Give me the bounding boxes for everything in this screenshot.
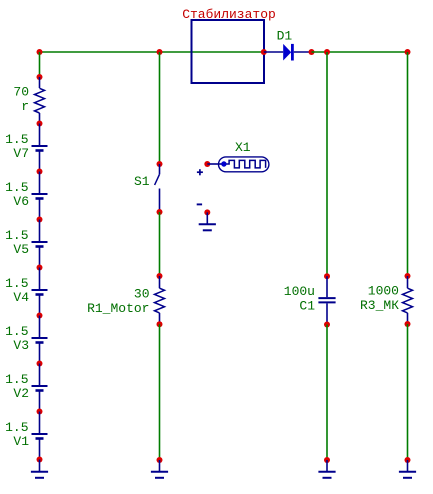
svg-text:V2: V2 bbox=[13, 386, 29, 401]
switch S1 bbox=[155, 164, 160, 212]
node junction R3_MK top bbox=[405, 273, 411, 279]
node junction below V1 bbox=[37, 457, 43, 463]
wire battery V2 top lead bbox=[39, 364, 41, 386]
ground X1 minus bbox=[199, 212, 216, 230]
connector X1 minus sign bbox=[197, 203, 202, 205]
node junction R3_MK ground bbox=[405, 457, 411, 463]
resistor R3_MK value label bbox=[368, 284, 399, 299]
battery V7 value label bbox=[5, 132, 28, 147]
wire battery V5 top lead bbox=[39, 220, 41, 242]
node junction R1_Motor top bbox=[157, 273, 163, 279]
node junction below V5 bbox=[37, 265, 43, 271]
battery V1 value label bbox=[5, 420, 28, 435]
wire R3_MK bottom lead bbox=[407, 313, 409, 324]
svg-text:V6: V6 bbox=[13, 194, 29, 209]
node junction S1 branch on top rail bbox=[157, 49, 163, 55]
node junction below V7 bbox=[37, 169, 43, 175]
node junction resistor r / V7 bbox=[37, 121, 43, 127]
wire R3_MK top lead bbox=[407, 276, 409, 288]
svg-text:1.5: 1.5 bbox=[5, 276, 28, 291]
wire C1 top lead bbox=[326, 276, 328, 297]
connector X1 label bbox=[235, 140, 251, 155]
stabilizer box U1 bbox=[192, 20, 265, 83]
battery V4 bbox=[32, 290, 48, 295]
battery V1 name label bbox=[13, 434, 29, 449]
wire battery V5 bottom lead bbox=[39, 247, 41, 268]
node junction below V3 bbox=[37, 361, 43, 367]
svg-text:1.5: 1.5 bbox=[5, 132, 28, 147]
node junction after D1 bbox=[309, 49, 315, 55]
svg-text:V5: V5 bbox=[13, 242, 29, 257]
svg-text:C1: C1 bbox=[299, 299, 315, 314]
node junction R1_Motor ground bbox=[157, 457, 163, 463]
node junction below V6 bbox=[37, 217, 43, 223]
wire battery V1 bottom lead bbox=[39, 439, 41, 460]
svg-text:V3: V3 bbox=[13, 338, 29, 353]
wire battery V3 top lead bbox=[39, 316, 41, 338]
wire C1 to ground bbox=[326, 325, 328, 461]
wire battery V1 top lead bbox=[39, 412, 41, 434]
battery V2 value label bbox=[5, 372, 28, 387]
wire R1_Motor to ground bbox=[159, 324, 161, 460]
battery V4 value label bbox=[5, 276, 28, 291]
wire top rail right bbox=[312, 51, 408, 53]
battery V7 name label bbox=[13, 146, 29, 161]
diode D1 bbox=[283, 44, 294, 61]
node junction below V4 bbox=[37, 313, 43, 319]
svg-text:1.5: 1.5 bbox=[5, 324, 28, 339]
svg-text:1.5: 1.5 bbox=[5, 420, 28, 435]
node junction C1 ground bbox=[324, 457, 330, 463]
node junction above resistor r bbox=[37, 74, 43, 80]
battery V6 bbox=[32, 194, 48, 199]
capacitor C1 name label bbox=[299, 299, 315, 314]
svg-text:V7: V7 bbox=[13, 146, 29, 161]
wire resistor r top lead bbox=[39, 77, 41, 88]
wire top rail left (node to stabilizer output) bbox=[40, 51, 264, 53]
node junction stabilizer output bbox=[261, 49, 267, 55]
diode D1 label bbox=[277, 29, 293, 44]
capacitor C1 value label bbox=[284, 284, 315, 299]
node junction R3 branch top-right corner bbox=[405, 49, 411, 55]
resistor R1_Motor name label bbox=[87, 301, 149, 316]
wire battery V3 bottom lead bbox=[39, 343, 41, 364]
ground C1 branch bbox=[318, 460, 335, 478]
wire battery V7 bottom lead bbox=[39, 151, 41, 172]
svg-text:V1: V1 bbox=[13, 434, 29, 449]
battery V2 bbox=[32, 386, 48, 391]
connector X1 bbox=[219, 157, 269, 172]
node junction R3_MK bottom bbox=[405, 321, 411, 327]
battery V3 name label bbox=[13, 338, 29, 353]
svg-text:D1: D1 bbox=[277, 29, 293, 44]
capacitor C1 bbox=[318, 298, 335, 302]
svg-text:1.5: 1.5 bbox=[5, 228, 28, 243]
wire C1 bottom lead bbox=[326, 303, 328, 324]
battery V5 bbox=[32, 242, 48, 247]
connector X1 plus sign bbox=[197, 169, 203, 175]
svg-text:30: 30 bbox=[134, 286, 150, 301]
stabilizer label bbox=[182, 7, 276, 22]
node junction R1_Motor bottom bbox=[157, 321, 163, 327]
wire battery V7 top lead bbox=[39, 124, 41, 146]
node junction C1 branch on top rail bbox=[324, 49, 330, 55]
node junction C1 bottom bbox=[324, 322, 330, 328]
svg-text:V4: V4 bbox=[13, 290, 29, 305]
svg-text:1.5: 1.5 bbox=[5, 372, 28, 387]
svg-text:1000: 1000 bbox=[368, 284, 399, 299]
node junction S1 top bbox=[157, 161, 163, 167]
battery V1 bbox=[32, 434, 48, 439]
resistor R1_Motor bbox=[155, 288, 165, 313]
resistor r value label bbox=[13, 85, 29, 100]
svg-text:70: 70 bbox=[13, 85, 29, 100]
wire R1_Motor bottom lead bbox=[159, 313, 161, 324]
wire S1 branch top bbox=[159, 52, 161, 164]
battery V3 bbox=[32, 338, 48, 343]
resistor r bbox=[35, 88, 45, 113]
battery V5 name label bbox=[13, 242, 29, 257]
wire D1 anode lead bbox=[264, 51, 283, 53]
battery V5 value label bbox=[5, 228, 28, 243]
resistor R3_MK name label bbox=[360, 298, 399, 313]
svg-text:S1: S1 bbox=[134, 174, 150, 189]
wire D1 cathode lead bbox=[294, 51, 312, 53]
svg-text:X1: X1 bbox=[235, 140, 251, 155]
node junction S1 bottom bbox=[157, 209, 163, 215]
wire R3_MK to ground bbox=[407, 324, 409, 460]
wire resistor r bottom lead bbox=[39, 113, 41, 124]
battery V2 name label bbox=[13, 386, 29, 401]
switch S1 label bbox=[134, 174, 150, 189]
wire battery V2 bottom lead bbox=[39, 391, 41, 412]
battery V7 bbox=[32, 146, 48, 151]
wire S1 to R1_Motor bbox=[159, 212, 161, 276]
svg-text:r: r bbox=[21, 99, 29, 114]
ground R3_MK branch bbox=[399, 460, 416, 478]
node X1 minus terminal bbox=[204, 209, 210, 215]
wire R1_Motor top lead bbox=[159, 276, 161, 288]
ground R1_Motor branch bbox=[151, 460, 168, 478]
svg-text:R1_Motor: R1_Motor bbox=[87, 301, 149, 316]
node X1 plus terminal bbox=[204, 161, 210, 167]
battery V4 name label bbox=[13, 290, 29, 305]
ground left branch bbox=[31, 460, 48, 478]
wire battery V4 bottom lead bbox=[39, 295, 41, 316]
wire R3_MK branch top bbox=[407, 52, 409, 276]
node junction C1 top bbox=[324, 273, 330, 279]
wire X1 plus lead bbox=[207, 163, 222, 165]
wire battery V6 top lead bbox=[39, 172, 41, 194]
svg-text:100u: 100u bbox=[284, 284, 315, 299]
wire C1 branch top bbox=[326, 52, 328, 276]
node junction top-left corner bbox=[37, 49, 43, 55]
battery V3 value label bbox=[5, 324, 28, 339]
wire battery V4 top lead bbox=[39, 268, 41, 290]
battery V6 name label bbox=[13, 194, 29, 209]
resistor R1_Motor value label bbox=[134, 286, 150, 301]
resistor R3_MK bbox=[403, 288, 413, 313]
wire left branch top bbox=[39, 52, 41, 77]
svg-text:R3_МК: R3_МК bbox=[360, 298, 399, 313]
node junction below V2 bbox=[37, 409, 43, 415]
battery V6 value label bbox=[5, 180, 28, 195]
wire battery V6 bottom lead bbox=[39, 199, 41, 220]
svg-text:1.5: 1.5 bbox=[5, 180, 28, 195]
resistor r name label bbox=[21, 99, 29, 114]
